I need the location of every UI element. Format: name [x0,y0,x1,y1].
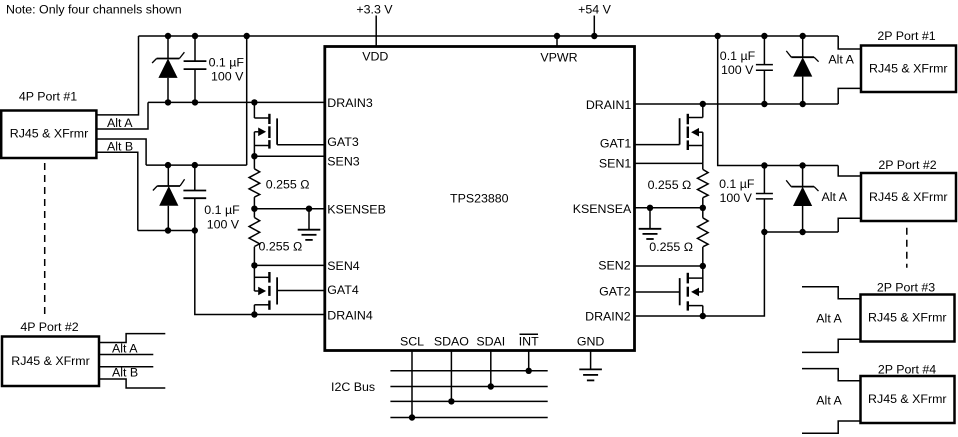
wire Alt B section feed vertical [246,36,248,165]
junction cap C3 top on rail [761,33,767,39]
junction cap C2 top [192,162,198,168]
svg-text:SEN2: SEN2 [598,259,630,273]
svg-text:4P Port #2: 4P Port #2 [20,320,78,334]
svg-text:SEN4: SEN4 [327,259,359,273]
junction cap C4 bottom [761,229,767,235]
wire Alt B lower down to bottom rail [96,152,137,230]
svg-text:RJ45 & XFrmr: RJ45 & XFrmr [868,392,946,406]
ground (KSENSEB) [298,209,321,240]
ground (KSENSEA) [639,208,662,239]
svg-text:KSENSEA: KSENSEA [573,202,632,216]
wire DRAIN3 rail [148,101,325,103]
junction SEN4 [251,262,257,268]
wire DRAIN2 to port 2 lower rail [635,232,765,316]
junction diode D1 top on rail [165,33,171,39]
svg-text:Alt A: Alt A [822,190,848,204]
wire 2P Port #1 top stub [838,36,861,49]
junction Q2 drain on DRAIN2 [700,313,706,319]
wire +54V down to top rail [593,16,595,37]
wire VPWR to top rail [556,36,558,47]
wire GAT4 [277,290,325,292]
wire SEN4 [254,264,324,266]
wire Alt B section upper rail [146,164,247,166]
TVS diode D2 [153,165,185,230]
junction Q4 drain on DRAIN4 [251,311,257,317]
junction diode D3 top on rail [800,33,806,39]
wire 2P Port #1 bottom stub [838,88,861,104]
junction diode D4 top [799,162,805,168]
wire SEN1 [635,162,703,164]
svg-text:VPWR: VPWR [540,51,577,65]
svg-text:GAT3: GAT3 [327,135,359,149]
wire KSENSEA [635,207,703,209]
dashed line below 2P Port #2 [906,228,908,268]
wire 4P Port #2 stub 3 [99,366,153,368]
wire 4P Port #2 stub 2 [99,354,153,356]
wire 2P Port #2 top stub [838,166,861,177]
4P Port #2 box RJ45 & XFrmr [2,337,99,387]
svg-text:0.1 µF: 0.1 µF [720,49,756,63]
wire 2P Port #4 top stub [802,369,861,381]
ground (GND pin) [579,351,602,381]
2P Port #4 box RJ45 & XFrmr [861,376,955,423]
wire DRAIN1 [635,103,839,105]
svg-text:GAT4: GAT4 [327,283,359,297]
svg-text:RJ45 & XFrmr: RJ45 & XFrmr [868,311,946,325]
junction SCL/bus4 [409,414,415,420]
capacitor C1 0.1uF [184,36,207,102]
svg-text:GAT2: GAT2 [599,284,631,298]
wire 4P Port #2 stub 1 [99,334,165,343]
svg-text:100 V: 100 V [720,191,753,205]
junction KSENSEB/resistors [251,206,257,212]
resistor R2 0.255 ohm (lower left) [249,209,260,266]
wire SDAI pin stub [490,351,492,387]
svg-text:RJ45 & XFrmr: RJ45 & XFrmr [869,61,947,75]
wire I2C bus line 2 [390,386,547,388]
wire 2P Port #3 top stub [802,287,861,299]
wire Alt A upper to top rail [96,36,138,115]
wire GAT3 [277,144,325,146]
wire bottom rail down to DRAIN4 [195,231,325,315]
wire KSENSEB [254,208,324,210]
svg-text:DRAIN4: DRAIN4 [327,309,373,323]
svg-text:GAT1: GAT1 [600,137,632,151]
wire port 2 lower rail [764,231,838,233]
svg-text:0.255 Ω: 0.255 Ω [648,178,692,192]
junction SDAI/bus2 [488,383,494,389]
wire I2C bus line 4 [390,417,547,419]
svg-text:Note: Only four channels shown: Note: Only four channels shown [6,3,182,17]
svg-text:Alt B: Alt B [107,139,133,153]
svg-text:RJ45 & XFrmr: RJ45 & XFrmr [11,354,89,368]
svg-text:100 V: 100 V [721,63,754,77]
transistor Q2 (lower right MOSFET) [680,266,703,316]
svg-text:DRAIN1: DRAIN1 [586,98,632,112]
svg-text:+3.3 V: +3.3 V [356,3,393,17]
junction Q3 drain [251,99,257,105]
junction KSENSEA/resistors [700,205,706,211]
2P Port #1 box RJ45 & XFrmr [861,46,956,93]
junction Alt B feed on rail [244,33,250,39]
junction diode D3 bottom [800,101,806,107]
svg-text:0.255 Ω: 0.255 Ω [649,240,693,254]
svg-text:VDD: VDD [362,50,388,64]
svg-text:TPS23880: TPS23880 [450,191,509,205]
wire Alt B section bottom rail [138,230,195,232]
TVS diode D3 (port 1) [786,36,818,104]
wire 4P Port #2 stub 4 [99,379,165,388]
junction +54V/top rail [591,33,597,39]
svg-text:DRAIN3: DRAIN3 [327,96,373,110]
junction KSENSEA/ground [647,205,653,211]
junction SEN3 [251,153,257,159]
wire SEN3 [254,155,324,157]
transistor Q1 (upper right MOSFET) [680,104,703,163]
wire INT pin stub [528,351,530,371]
svg-text:Alt A: Alt A [107,116,133,130]
svg-text:KSENSEB: KSENSEB [327,203,386,217]
capacitor C2 0.1uF [183,165,206,230]
junction port2 feed on rail [715,33,721,39]
junction diode D2 top [165,162,171,168]
junction SDAO/bus3 [448,398,454,404]
wire top +54V rail [139,35,839,37]
junction diode D2 bottom [165,227,171,233]
wire SEN2 [635,265,703,267]
wire +3.3V to VDD [375,16,377,47]
svg-text:+54 V: +54 V [578,3,611,17]
4P Port #1 box RJ45 & XFrmr [1,111,96,159]
svg-text:0.1 µF: 0.1 µF [209,56,245,70]
resistor R3 0.255 ohm (upper right) [698,163,709,207]
wire 2P Port #3 bottom stub [802,339,861,352]
junction cap C3 bottom [761,101,767,107]
svg-text:SEN1: SEN1 [599,157,631,171]
junction VPWR/top rail [554,33,560,39]
junction diode D4 bottom [799,229,805,235]
junction cap C1 bottom [192,99,198,105]
svg-text:0.255 Ω: 0.255 Ω [266,177,310,191]
svg-text:100 V: 100 V [211,70,244,84]
svg-text:100 V: 100 V [207,217,240,231]
svg-text:0.1 µF: 0.1 µF [204,203,240,217]
svg-text:SDAO: SDAO [434,334,469,348]
svg-text:Alt B: Alt B [112,366,138,380]
junction SEN2 [700,263,706,269]
svg-text:SEN3: SEN3 [327,154,359,168]
svg-text:2P Port #2: 2P Port #2 [878,158,936,172]
svg-text:0.255 Ω: 0.255 Ω [259,240,303,254]
svg-text:RJ45 & XFrmr: RJ45 & XFrmr [869,190,947,204]
resistor R4 0.255 ohm (lower right) [698,208,709,266]
junction cap C4 top [761,162,767,168]
wire GAT2 [635,291,680,293]
svg-text:RJ45 & XFrmr: RJ45 & XFrmr [10,127,88,141]
svg-text:GND: GND [577,334,605,348]
svg-text:2P Port #1: 2P Port #1 [877,29,935,43]
junction cap C2 bottom [192,227,198,233]
wire SCL pin stub [411,351,413,418]
svg-text:2P Port #3: 2P Port #3 [877,281,935,295]
TVS diode D1 [152,36,184,102]
overline for INT [520,333,539,335]
wire Alt A lower to DRAIN3 rail [96,102,148,129]
dashed line between 4P ports [44,163,46,318]
svg-text:Alt A: Alt A [112,342,138,356]
wire I2C bus line 1 [390,370,547,372]
wire I2C bus line 3 [390,400,547,402]
transistor Q4 (lower left MOSFET) [254,265,277,314]
junction KSENSEB/ground [306,206,312,212]
wire 2P Port #2 bottom stub [838,218,861,232]
svg-text:Alt A: Alt A [828,53,854,67]
svg-text:4P Port #1: 4P Port #1 [19,90,77,104]
svg-text:0.1 µF: 0.1 µF [719,177,755,191]
transistor Q3 (upper left MOSFET) [254,102,277,156]
wire SDAO pin stub [450,351,452,402]
svg-text:DRAIN2: DRAIN2 [585,310,631,324]
junction diode D1 bottom [165,99,171,105]
svg-text:INT: INT [519,334,539,348]
junction cap C1 top on rail [192,33,198,39]
junction INT/bus1 [526,368,532,374]
junction Q1 drain [700,101,706,107]
TVS diode D4 (port 2) [786,166,818,233]
svg-text:SDAI: SDAI [476,334,505,348]
2P Port #3 box RJ45 & XFrmr [861,295,955,342]
svg-text:I2C Bus: I2C Bus [331,380,375,394]
2P Port #2 box RJ45 & XFrmr [861,173,956,221]
svg-text:Alt A: Alt A [816,311,842,325]
IC U1 TPS23880 outline [325,47,635,351]
svg-text:Alt A: Alt A [816,393,842,407]
svg-text:SCL: SCL [400,334,424,348]
wire port 2 feed vertical and upper rail [718,36,839,166]
capacitor C3 0.1uF (port 1) [756,36,773,104]
wire 2P Port #4 bottom stub [802,421,861,433]
wire Alt B upper down to lower section rail [96,139,146,165]
capacitor C4 0.1uF (port 2) [756,166,773,233]
svg-text:2P Port #4: 2P Port #4 [878,363,936,377]
resistor R1 0.255 ohm (upper left) [249,156,260,209]
wire GAT1 [635,144,680,146]
